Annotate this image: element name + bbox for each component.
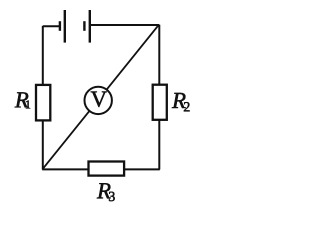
label R1 <box>15 92 31 108</box>
battery B1: cell 2 long plate (positive) <box>89 10 91 43</box>
voltmeter letter V <box>91 92 107 107</box>
resistor R2 (box) <box>153 85 167 120</box>
wire: right side vertical <box>158 25 160 170</box>
battery B1: cell 1 long plate (positive) <box>64 10 66 43</box>
resistor R1 (box) <box>36 85 50 121</box>
label R3 <box>97 183 115 201</box>
battery B1: cell 2 short plate (negative) <box>83 21 85 31</box>
wire: diagonal from bottom-left node to top-right node <box>43 25 158 168</box>
battery B1: cell 1 short plate (negative) <box>59 21 61 31</box>
wire: bottom horizontal <box>42 168 160 170</box>
wire: left side vertical <box>42 26 44 170</box>
label R2 <box>172 93 190 111</box>
wire: top-right segment from battery to top-right corner <box>90 24 160 26</box>
voltmeter V (circle) <box>85 87 112 114</box>
wire: top-left segment from top-left corner to battery <box>43 25 60 27</box>
resistor R3 (box) <box>89 162 125 176</box>
